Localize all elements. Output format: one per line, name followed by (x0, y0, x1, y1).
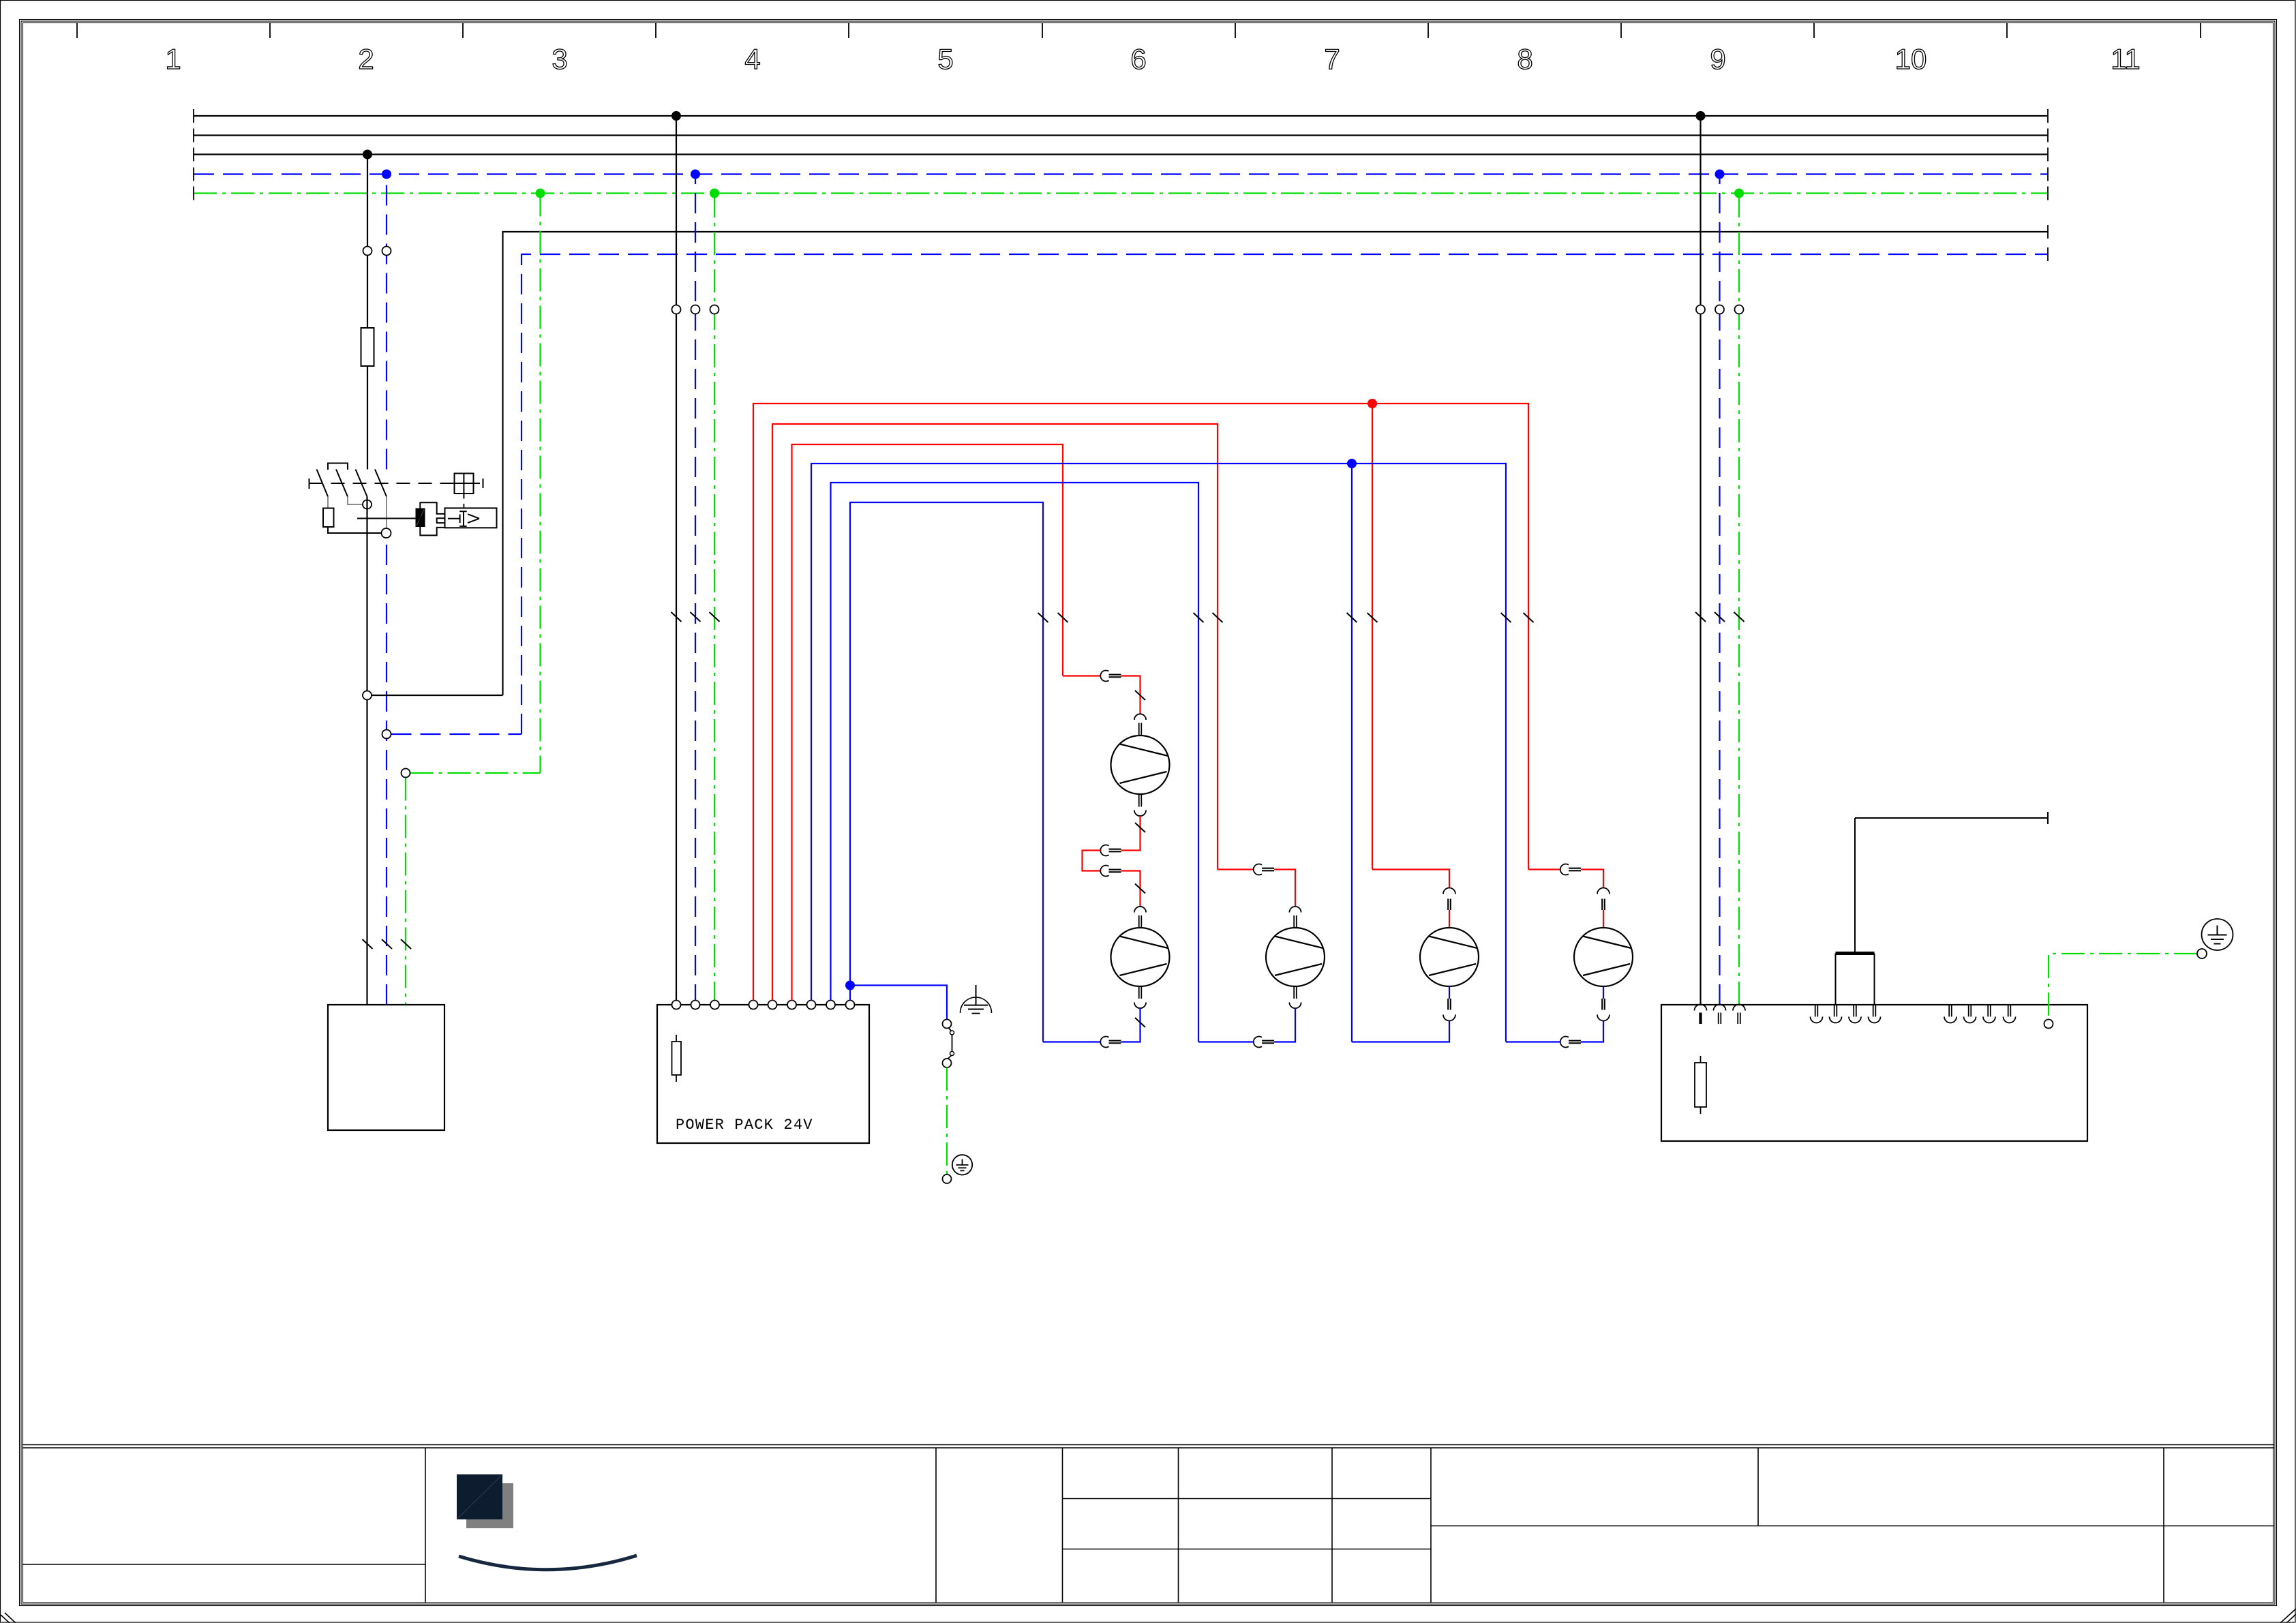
corner fold marks (1, 1609, 2296, 1623)
svg-text:7: 7 (1324, 43, 1340, 75)
trip unit U1 box (445, 508, 497, 528)
terminal group 2: pins + socket arcs (1811, 1005, 1881, 1023)
node dot PE/792 (536, 189, 545, 198)
wire test button to trip unit (463, 504, 464, 508)
connector socket arc fan5 bottom (1597, 1015, 1610, 1021)
terminal group 3: pins + socket arcs (1944, 1005, 2016, 1023)
wire L2 bus (194, 134, 2048, 136)
connector slash (1135, 884, 1145, 894)
24V DISTRIBUTION (753, 399, 1534, 1042)
pin stub fan3 top (1293, 915, 1295, 928)
BUS LINES (194, 109, 2048, 734)
connector socket arc fan2 bottom (1134, 1003, 1146, 1009)
node open circle wire end (2197, 949, 2207, 958)
wire red into connector (1528, 868, 1560, 870)
wire green PE to controller (2049, 954, 2197, 1019)
wire green to PE terminal (946, 1067, 948, 1174)
wire blue fan4 return (1352, 1021, 1449, 1042)
wire blue to switch (850, 986, 947, 1020)
transformer sensor body (1836, 952, 1875, 955)
transformer CT toroid (filled) (416, 509, 425, 528)
wire blue 0V middle (831, 483, 1199, 1042)
node dot PE/2551 (1734, 189, 1744, 198)
wire N drop blue dashed x=567 (386, 175, 387, 470)
wire blue to riser (1506, 1041, 1560, 1042)
LOGO (457, 1474, 637, 1570)
wire red link jog (1083, 851, 1101, 871)
bus end ticks right (2047, 109, 2049, 261)
wire blue to riser (1198, 1041, 1254, 1042)
wire N drop blue x=2522.5 (1719, 175, 1720, 1005)
svg-text:POWER PACK 24V: POWER PACK 24V (676, 1117, 813, 1134)
breaker Q1 blade pole3 (356, 470, 367, 497)
resistor R1 (323, 509, 334, 528)
wire N drop blue x=1020 (695, 175, 696, 1005)
FAN GROUP 1 (two fans in series) (1043, 671, 1170, 1048)
logo swoosh (459, 1556, 637, 1570)
wire PE drop green x=2551 (1738, 194, 1740, 1005)
box consumer unit (left) (328, 1005, 444, 1130)
motor fan M2 (1111, 928, 1170, 986)
connector slashes y=905 (1695, 612, 1744, 622)
svg-text:11: 11 (2111, 43, 2141, 75)
ground PE circle symbol (952, 1155, 972, 1174)
switch S2 contact (943, 1020, 952, 1029)
svg-text:10: 10 (1895, 43, 1927, 75)
logo gray square (466, 1483, 513, 1528)
ANTENNA / SENSOR (1836, 812, 2049, 1005)
wire red branch to fan4 (1372, 404, 1373, 870)
grid horizontals (22, 1564, 426, 1565)
connector socket arc fan1 top (1134, 714, 1146, 720)
JUNCTION DOTS (363, 111, 1744, 198)
node open circle wire end (943, 1174, 952, 1183)
connector X6 arc+pins (1254, 1036, 1262, 1047)
fuse F2 inside power pack (676, 1035, 677, 1082)
wire black feeder bus (row 2) (503, 232, 2049, 695)
svg-text:1: 1 (165, 43, 181, 75)
svg-text:8: 8 (1517, 43, 1532, 75)
wire pole1 to resistor (gray) (327, 497, 329, 509)
connector socket arc fan2 top (1134, 907, 1146, 913)
connector socket arc fan3 top (1289, 907, 1301, 913)
node terminal circle black wire top (363, 247, 372, 256)
wire red to fan2 (1121, 871, 1141, 907)
node dot L1/2494 (1696, 111, 1706, 121)
logo navy square (457, 1474, 502, 1519)
POWER PACK BOX (657, 1001, 869, 1144)
pin stub fan1 top (1138, 723, 1140, 736)
breaker Q1 blade pole4 (375, 470, 387, 497)
node terminal circles y=454 (1696, 305, 1705, 314)
pin stub fan3 bottom (1293, 986, 1295, 999)
svg-text:4: 4 (744, 43, 760, 75)
wire blue dashed x=567 lower (386, 538, 387, 1005)
wire blue 0V inner (850, 502, 1043, 1042)
node blue junction dot (1347, 459, 1357, 468)
box POWER PACK 24V (657, 1005, 869, 1143)
separator double line (22, 1444, 2275, 1446)
wire blue fan5 return (1581, 1021, 1603, 1042)
FAN GROUP 3 (fan M4) (1352, 870, 1479, 1042)
fuse F3 inside controller (1700, 1056, 1702, 1114)
terminal group 1: socket arcs + pins (1695, 1005, 1746, 1025)
box controller (1661, 1005, 2087, 1141)
wire PE bus (green dash-dot) (194, 192, 2048, 194)
LEFT BRANCH (column 2) (309, 155, 541, 1131)
connector slash (1135, 823, 1145, 832)
connector slashes y=905 (671, 612, 720, 622)
node dot N/567 (382, 170, 391, 179)
wire L1 drop black x=992 (676, 116, 677, 1005)
connector X2 arc+pins (1100, 845, 1108, 856)
node dot N/2522 (1715, 170, 1725, 179)
connector socket arc fan3 bottom (1289, 1003, 1301, 1009)
node dot PE/1048 (710, 189, 719, 198)
connector pins vertical bottom (1601, 999, 1603, 1010)
wire L1 bus (194, 115, 2048, 117)
svg-text:5: 5 (937, 43, 953, 75)
wire red connector to fan1 (1121, 676, 1141, 714)
wire black branch to feeder: circle + horizontal (372, 695, 503, 696)
grid verticals (425, 1448, 426, 1603)
connector socket arc fan5 top (1597, 888, 1610, 894)
wire red pin to fan4 (1449, 910, 1450, 928)
ground PE circle symbol large (2202, 919, 2233, 950)
connector X8 arc+pins (1560, 1037, 1569, 1048)
FAN GROUP 4 (fan M5) (1506, 864, 1633, 1048)
terminals on top edge (672, 1001, 855, 1010)
wire red to fan3 (1274, 870, 1295, 907)
RULER (77, 23, 2201, 38)
wire antenna horizontal (1855, 817, 2048, 819)
pin stub fan2 bottom (1138, 986, 1140, 999)
node dot N/1020 (691, 170, 700, 179)
motor fan M5 (1574, 928, 1633, 986)
wire blue fan4 bottom to pins (1449, 986, 1450, 999)
node red junction dot (1368, 399, 1377, 408)
connector X7 arc+pins (1560, 864, 1569, 875)
wire red into connector (1218, 868, 1254, 870)
breaker linkage dashed (309, 483, 455, 484)
connector X5 arc+pins (1254, 864, 1262, 875)
wire blue 0V outer (811, 464, 1506, 1042)
connector X4 arc+pins (1100, 1036, 1108, 1047)
wire RCD sensing line (357, 518, 416, 519)
wire red pin to fan5 (1603, 910, 1604, 928)
trip unit I> glyph (448, 511, 479, 526)
RIGHT CONTROLLER BOX (1661, 1005, 2087, 1142)
wire pole4 lower (gray) (386, 497, 387, 529)
wire blue feeder bus (row 2, dashed) (522, 254, 2048, 734)
wire red to fan5 (1581, 870, 1603, 888)
test button S1 crossed square (455, 474, 474, 494)
svg-text:3: 3 (552, 43, 567, 75)
node blue dot at terminal 1247 (845, 981, 855, 990)
relay body outline with tabs (420, 502, 444, 535)
wire red into connector (1063, 675, 1101, 676)
wire blue fan2 return (1121, 1008, 1141, 1042)
connector X3 arc+pins (1100, 866, 1108, 877)
motor fan M1 (1111, 735, 1170, 794)
bus end ticks left (193, 109, 194, 200)
node terminal circle blue wire top (382, 247, 391, 256)
wire L3 drop black x=539 upper (367, 155, 368, 329)
connector slashes on fan feeders y=906 (1038, 613, 1534, 622)
RIGHT PE EARTH (2049, 919, 2233, 1019)
wire L3 bus (194, 153, 2048, 155)
svg-text:2: 2 (358, 43, 374, 75)
node terminal circles y=454 (672, 305, 681, 314)
BLUE TO EARTH SWITCH BRANCH (845, 981, 992, 1184)
wire N bus (blue dashed) (194, 173, 2048, 175)
connector pins vertical (1447, 899, 1449, 911)
wire black x=539 to breaker (367, 366, 368, 470)
wire blue branch fan4 return (1351, 464, 1353, 1042)
RIGHT CONTROLLER FEEDS (column 9) (1695, 116, 1744, 1005)
wire green PE riser x=792.5 (539, 194, 541, 774)
wire blue to riser (1043, 1041, 1101, 1042)
ground chassis symbol (961, 985, 992, 1014)
connector socket arc fan4 top (1443, 888, 1455, 894)
connector slash (1135, 1018, 1145, 1027)
connector socket arc fan4 bottom (1443, 1015, 1455, 1021)
motor fan M3 (1266, 928, 1325, 986)
wire green dash-dot x=595 lower (405, 778, 406, 1005)
wire red V+ inner (792, 444, 1063, 1001)
wire red fan1 to link connectors (1121, 816, 1141, 851)
wire L1 drop black x=2494.5 (1700, 116, 1701, 1005)
TITLE BLOCK (22, 1445, 2275, 1603)
pin stub fan1 bottom (1138, 794, 1140, 807)
wire red V+ outer: terminal 1105 up and right (753, 404, 1528, 1001)
wire blue fan5 bottom to pins (1603, 986, 1604, 999)
node pole2 junction circle (363, 500, 372, 509)
wire red V+ middle (772, 424, 1218, 1001)
POWER PACK FEEDS (columns 4) (671, 116, 720, 1005)
wire blue fan3 return (1274, 1008, 1295, 1042)
node dot L3/539 (363, 150, 372, 160)
wire pole2 lower (gray) (348, 497, 363, 505)
connector pins vertical bottom (1447, 999, 1449, 1010)
motor fan M4 (1420, 928, 1479, 986)
wire red to fan4 (1372, 870, 1449, 888)
connector slash (1135, 691, 1145, 700)
pin stub fan2 top (1138, 915, 1140, 928)
svg-text:6: 6 (1130, 43, 1146, 75)
wire antenna drop (1854, 818, 1856, 952)
wire green horizontal y=1134 (410, 772, 541, 774)
connector socket arc fan1 bottom (1134, 810, 1146, 817)
node neutral junction circle (382, 528, 391, 538)
node green circle inside box (2044, 1020, 2053, 1029)
connector slashes on wires to box (363, 939, 412, 949)
breaker Q1 bracket (328, 464, 348, 470)
breaker Q1 blade pole1 (317, 470, 329, 497)
wire PE drop green x=1048 (714, 194, 715, 1005)
FAN GROUP 2 (fan M3) (1198, 864, 1325, 1048)
connector X1 arc+pins (1100, 671, 1108, 682)
wire resistor bottom (328, 527, 382, 533)
svg-text:9: 9 (1710, 43, 1725, 75)
connector pins vertical (1601, 899, 1603, 911)
fuse F1 (361, 328, 374, 366)
wire black x=539 breaker to box (366, 497, 367, 1005)
node dot L1/992 (671, 111, 681, 121)
wire blue branch to feeder (391, 733, 522, 735)
breaker Q1 blade pole2 (336, 470, 348, 497)
